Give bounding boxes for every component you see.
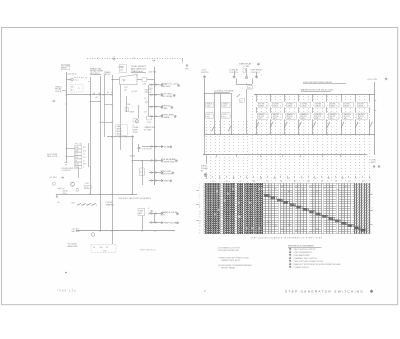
white group separations [278,184,280,234]
svg-text:MOTOR: MOTOR [315,116,322,118]
svg-text:K7: K7 [355,178,357,180]
svg-text:MOTOR: MOTOR [344,116,351,118]
svg-text:BASE: BASE [62,67,68,70]
contact slash B7 [341,122,344,128]
track contact box T2A [222,102,230,107]
svg-text:TO STEP GEN: TO STEP GEN [161,162,175,164]
svg-text:S6: S6 [280,181,282,183]
wire: TD drop to bus2 [246,89,248,134]
svg-text:11: 11 [199,207,201,209]
svg-text:K6 REL: K6 REL [330,103,336,105]
left branch wires L2 [220,94,222,134]
svg-text:M4: M4 [274,178,276,180]
selector contact box M1 [258,113,269,119]
wire: left vertical rail [66,72,68,160]
wire: into amp [112,79,120,81]
svg-text:CHANNEL TEST SWITCH: CHANNEL TEST SWITCH [294,257,318,260]
branch link wire B3 [284,107,286,113]
wire: right supply rail [374,82,376,155]
svg-text:MOTOR: MOTOR [330,116,337,118]
svg-text:+15V SUP: +15V SUP [161,86,171,88]
svg-text:0.1: 0.1 [106,247,108,249]
legend item 6 [289,263,291,265]
wire: vertical x126 [126,96,128,112]
branch wire B4 [298,95,300,102]
contact slash L2 [228,126,231,132]
output: PULSE BLANK [149,160,160,162]
svg-text:SEC SUP: SEC SUP [72,231,81,233]
wire: mesh link y105 [104,104,112,106]
relay contact box K7A [343,102,353,107]
svg-text:x: x [261,74,262,76]
svg-text:SEL 6: SEL 6 [330,118,334,120]
svg-text:TP3: TP3 [124,87,127,89]
svg-text:R15: R15 [83,147,86,149]
svg-text:100: 100 [100,247,103,249]
svg-text:K1 REL: K1 REL [259,103,265,105]
chart light column groups [265,183,267,234]
transistor Q1 [135,120,138,123]
svg-text:CONTROL VOLTAGE: CONTROL VOLTAGE [214,89,234,92]
wire: output rail [148,85,150,117]
svg-text:NO.2: NO.2 [223,116,227,118]
contact marks near x238 [237,94,240,97]
wire: vertical x100 [100,76,102,231]
wires: TD cluster verticals [234,71,236,76]
svg-text:M5: M5 [233,178,235,180]
legend item 7 [289,266,291,268]
resistor R19 [85,185,92,188]
svg-text:R6: R6 [328,178,330,180]
branch wire B7 [341,95,343,102]
svg-text:TP9: TP9 [185,69,188,71]
branch wire B9 [369,95,371,102]
wire: horizontal node row [66,94,112,96]
svg-text:10: 10 [199,205,201,207]
svg-text:STEP 1 ADJ 0 nnn: STEP 1 ADJ 0 nnn [140,248,156,251]
tick near rail top [152,60,155,62]
svg-text:SHAPER: SHAPER [106,204,115,207]
svg-text:T PULSE: T PULSE [161,146,170,148]
wire: bottom bus [76,230,175,232]
wire: left stub w arrow [62,90,66,92]
wire: left rail x204.5 [204,78,206,134]
chart dark hatched bands left [206,183,221,234]
branch wire B8 [355,95,357,102]
svg-text:SEL 5: SEL 5 [315,118,319,120]
wire: trapezoid drop x120 [120,85,122,151]
contact slash B1 [256,122,259,128]
bus 2: selector bus [205,134,376,136]
svg-text:R8: R8 [253,181,255,183]
stack part R16 [75,149,82,152]
wire: stubs to stack [66,148,75,150]
svg-text:7: 7 [199,198,200,200]
svg-text:C4: C4 [83,154,85,156]
svg-text:K3: K3 [321,181,323,183]
track contact box T2B [222,113,230,118]
svg-text:SEL 4: SEL 4 [301,118,305,120]
branch link wire B7 [341,107,343,113]
ground stub [56,194,58,197]
svg-text:0.1: 0.1 [93,247,95,249]
svg-text:19: 19 [199,225,201,227]
relay contact box K8A [358,102,368,107]
contact slash B6 [327,122,330,128]
relay contact box K6A [329,102,339,107]
svg-text:C1: C1 [78,88,80,90]
stack part R17 [75,156,82,159]
svg-text:a: a [372,193,373,195]
chart header ticks [206,176,208,178]
svg-text:STEP GENERATOR: STEP GENERATOR [294,251,313,254]
svg-text:K8: K8 [287,178,289,180]
svg-text:K6: K6 [240,181,242,183]
wire: stack bottom drop [78,167,80,178]
track contact box T1B [206,113,214,118]
relay contact box K3A [287,102,297,107]
svg-text:CAPACITORS IN UF: CAPACITORS IN UF [221,259,241,262]
output: T PULSE [149,146,160,148]
svg-text:T5: T5 [301,178,303,180]
svg-text:+2 STEP: +2 STEP [161,180,170,182]
scattered chart marks [267,187,269,189]
svg-text:x x x: x x x [75,80,79,82]
svg-text:18: 18 [199,223,201,225]
svg-text:SEL 8: SEL 8 [358,118,362,120]
svg-text:T8: T8 [335,181,337,183]
branch wire B2 [270,95,272,102]
resistor R3 2.2K [142,78,147,82]
terminal circle [204,174,207,177]
branch link wire B5 [312,107,314,113]
wire: dotted signal line across top [87,58,182,60]
reference dot A [65,272,67,274]
branch drop wire B9 [369,119,371,134]
svg-text:K4: K4 [226,181,228,183]
hanging tap: step pulse in [206,155,208,164]
rail ticks [374,100,376,102]
svg-text:GEN LOCK: GEN LOCK [47,156,58,158]
output: STEP LEVEL [149,116,160,118]
svg-text:COIL NO.2: COIL NO.2 [251,72,260,74]
svg-text:b: b [372,208,373,210]
branch drop wire B7 [341,119,343,134]
wire: R3 to rail [147,79,155,81]
wire: vertical x138 [138,105,140,119]
contact slash B9 [370,122,373,128]
svg-text:TO SEL: TO SEL [161,108,169,110]
wire: link at y161 [132,160,149,162]
output: STEP UP [149,106,160,108]
stack part R18 [75,162,82,165]
chart ON staircase trace [264,195,367,232]
svg-text:K9: K9 [260,178,262,180]
test point circle TP2 [52,182,55,185]
relay coil K1 [70,78,73,81]
svg-text:STEP ELEVATION ANGLE IN DEGREE: STEP ELEVATION ANGLE IN DEGREES OF STEP … [251,236,323,239]
stack part C4 [75,152,82,155]
svg-text:TO STEP: TO STEP [144,130,153,132]
svg-text:POWER SUPPLY: POWER SUPPLY [294,267,311,269]
wire: mesh link y101 [90,101,100,103]
svg-text:K4 REL: K4 REL [302,103,308,105]
supply terminal left [203,76,205,78]
pot wiper arrow [148,211,152,215]
bus 3: control bus [203,154,367,156]
dotted sense lines to chart [206,121,208,183]
contact slash B8 [355,122,358,128]
selector contact box M2 [272,113,283,119]
svg-text:REL 2: REL 2 [223,106,227,108]
stack part R15 [75,146,82,149]
relay contact box K5A [315,102,325,107]
wire: drops from bus [112,231,114,244]
svg-text:TP1: TP1 [75,144,78,146]
svg-text:17: 17 [199,221,201,223]
svg-text:13: 13 [199,212,201,214]
legend item 5 [289,260,291,262]
output: STEP UNIT SELECTOR [149,172,160,174]
contact S1-4 [93,203,96,205]
svg-text:STEP GENERATOR SWITCHING: STEP GENERATOR SWITCHING [285,289,364,293]
bus3 junction dots [207,154,208,155]
label: TO TIME BASE (boxed) [61,64,70,69]
svg-text:K5 REL: K5 REL [316,103,322,105]
svg-text:LOCKOUT: LOCKOUT [62,170,72,172]
svg-text:STEP AMPLIFIER: STEP AMPLIFIER [294,254,311,257]
relay coil TD1 [245,76,248,79]
svg-text:14: 14 [199,214,201,216]
svg-text:SEL 7: SEL 7 [344,118,348,120]
legend item 4 [289,257,291,259]
svg-text:+1 STEP PULSE: +1 STEP PULSE [161,222,177,224]
svg-text:+15 VDC: +15 VDC [49,177,58,179]
svg-text:TEST FIXTURE CONNECTIONS: TEST FIXTURE CONNECTIONS [294,261,324,263]
wire: mesh link y122 [100,122,112,124]
svg-text:21: 21 [199,230,201,232]
svg-text:SW CT: SW CT [207,114,212,116]
svg-text:7506 13a: 7506 13a [57,288,77,292]
svg-text:K1: K1 [369,178,371,180]
branch wire B3 [284,95,286,102]
wire: R9 vertical [142,161,144,186]
svg-text:TO GATE: TO GATE [161,116,171,119]
stack part D [75,166,82,169]
branch drop wire B1 [256,119,258,134]
svg-text:OCR PARTS LIST FOR: OCR PARTS LIST FOR [218,247,240,250]
ground termination on left rail [66,160,68,163]
svg-text:SHIFT: SHIFT [371,162,377,164]
selector contact box M7 [343,113,354,119]
terminal TD-b [255,76,257,78]
svg-text:K2 REL: K2 REL [273,103,279,105]
junction dots on bus [99,230,100,231]
branch link wire B6 [326,107,328,113]
amplifier A1 block [120,75,138,85]
one-shot block text [116,125,128,136]
svg-text:R9: R9 [362,181,364,183]
svg-text:S9: S9 [314,178,316,180]
wire: vertical x104 [104,75,106,137]
pickoff arrow on dotted line [113,56,115,60]
svg-text:CALCULATOR OUTPUT: CALCULATOR OUTPUT [294,248,317,251]
svg-text:SUPPLY: SUPPLY [201,72,209,74]
left cluster tie [205,93,232,95]
svg-text:C5: C5 [83,160,85,162]
selector contact box M8 [357,113,368,119]
svg-text:SEL 3: SEL 3 [287,118,291,120]
legend item 2 [289,251,291,253]
svg-text:SYNCHRONIZER PNL: SYNCHRONIZER PNL [218,250,240,252]
branch link wire B4 [298,107,300,113]
svg-text:MOTOR: MOTOR [301,116,308,118]
dashed module box [91,245,116,253]
bus3 tick marks [216,155,218,158]
svg-text:22: 22 [199,232,201,234]
svg-text:0.1: 0.1 [75,154,77,156]
chart right hatched band [354,183,369,234]
svg-text:REFERENCE DIAGRAMS: REFERENCE DIAGRAMS [288,244,314,247]
output: STEP PULSE [149,222,160,224]
branch drop wire B6 [326,119,328,134]
legend item 1 [289,248,291,250]
wire: link to T pulse [142,146,149,148]
left scale ticks [197,190,200,192]
bus3 left drop [204,134,206,155]
svg-text:REL 1: REL 1 [207,106,211,108]
branch wire B1 [256,95,258,102]
contact slash B3 [284,122,287,128]
chart row grid [204,185,370,187]
wire: stack right tie x88 [88,143,90,167]
resistor box x240 [240,99,245,102]
output: SAMPLE PULSE OUT [149,213,160,215]
branch drop wire B3 [284,119,286,134]
svg-text:MAGNETIC MOTOR SELECTORS: MAGNETIC MOTOR SELECTORS [301,88,334,91]
stack part C5 [75,159,82,162]
svg-text:+150 VDC: +150 VDC [148,72,158,74]
svg-text:R16: R16 [83,150,86,152]
left branch wires L1 [204,94,206,134]
svg-text:MOTOR: MOTOR [358,116,365,118]
legend item 3 [289,254,291,256]
svg-text:+150 VDC: +150 VDC [67,74,77,76]
wire: vertical x90 [90,77,92,194]
svg-text:SEL 2: SEL 2 [273,118,277,120]
wire: amp out to R3 [137,79,142,81]
test point on rail [146,101,148,103]
input connector box with pins [120,65,127,73]
relay contact box K1A [258,102,268,107]
dashed component box left [70,85,83,93]
svg-text:K3 REL: K3 REL [288,103,294,105]
track contact box T1A [206,102,214,107]
svg-text:6: 6 [199,196,200,198]
output: READY TO +15V [149,84,160,86]
wire: TD horizontal tie [236,84,252,86]
block R11 [133,119,137,122]
capacitor C2 [138,144,140,147]
svg-text:REL: REL [71,87,74,89]
branch link wire B8 [355,107,357,113]
wire: right rail x155 [154,67,156,185]
svg-text:RATE: RATE [130,111,135,114]
branch wire B6 [326,95,328,102]
svg-text:COIL NO.1: COIL NO.1 [229,72,238,74]
output: 2 STEP [149,180,160,182]
resistor R9 4.7K [140,168,144,176]
branch drop wire B4 [298,119,300,134]
svg-text:4.7K PULSE: 4.7K PULSE [142,149,153,151]
svg-text:S4: S4 [348,181,350,183]
svg-text:@ INDICATES SCREWDRIVER ADJ: @ INDICATES SCREWDRIVER ADJ [218,264,252,267]
contact slash B5 [313,122,316,128]
relay contact box K4A [301,102,311,107]
svg-text:ADJ: ADJ [139,212,142,215]
svg-text:1: 1 [199,184,200,186]
svg-text:SEL 1: SEL 1 [259,118,263,120]
svg-text:OUT: OUT [161,215,166,217]
terminal TD-a [233,76,235,78]
svg-text:T2: T2 [267,181,269,183]
chart outer frame [204,183,370,234]
svg-text:MOTOR: MOTOR [273,116,280,118]
wire: pulse gen horizontal [56,194,137,196]
svg-text:15: 15 [199,216,201,218]
dotted separators between bands [222,183,224,234]
svg-text:+15V +28V: +15V +28V [367,79,378,81]
transistor Q3 [91,233,95,237]
svg-text:AMPLIFIER: AMPLIFIER [68,245,79,248]
svg-text:CKT B: CKT B [133,132,139,134]
branch link wire B9 [369,107,371,113]
svg-text:REL B: REL B [104,74,110,76]
contact S1-3 [88,203,91,205]
svg-text:SELECTOR: SELECTOR [161,174,173,176]
branch link wire B2 [270,107,272,113]
wire: stub to K1 [66,79,70,81]
selector contact box M5 [314,113,325,119]
contact S1-1 [78,203,81,205]
svg-text:10: 10 [75,160,77,162]
svg-text:T3: T3 [219,178,221,180]
svg-text:ONE SHOT MULTIVIB PULSE AMPL: ONE SHOT MULTIVIB PULSE AMPL [118,197,152,200]
svg-text:(C) 100: (C) 100 [131,91,137,93]
svg-text:FRONT PANEL: FRONT PANEL [221,267,236,270]
svg-text:CR2: CR2 [75,167,78,169]
svg-text:S7: S7 [246,178,248,180]
svg-text:A4: A4 [96,96,98,99]
chart right ticks [370,194,373,196]
svg-text:5: 5 [199,193,200,195]
diode CR1 [76,188,79,191]
output: STOP TRIG [149,94,160,96]
svg-text:READOUT SWITCHING SYNCHRONIZ: READOUT SWITCHING SYNCHRONIZATION DIAG [294,263,341,266]
selector contact box M4 [300,113,311,119]
contact slash B2 [270,122,273,128]
svg-text:SW CT: SW CT [223,114,228,116]
transistor Q2 [70,182,74,186]
branch drop wire B5 [312,119,314,134]
contact slash B4 [299,122,302,128]
svg-text:M2: M2 [342,178,344,180]
resistor RT 1K [248,86,253,89]
svg-text:+15V LEVEL: +15V LEVEL [161,96,174,98]
svg-text:2: 2 [199,186,200,188]
white row separations over dark bands [206,185,264,187]
diode marks row [57,187,65,189]
